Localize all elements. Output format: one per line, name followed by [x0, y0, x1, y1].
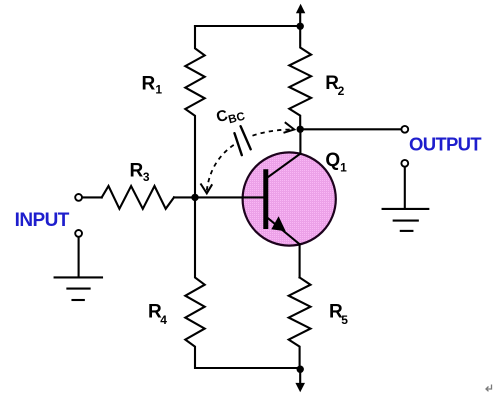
- svg-text:INPUT: INPUT: [15, 210, 70, 231]
- svg-text:4: 4: [160, 313, 167, 327]
- svg-text:1: 1: [340, 161, 347, 175]
- svg-text:R: R: [142, 73, 156, 94]
- svg-text:R: R: [130, 161, 144, 182]
- svg-text:3: 3: [143, 170, 150, 184]
- svg-text:Q: Q: [325, 150, 340, 171]
- svg-text:1: 1: [155, 83, 162, 97]
- svg-text:2: 2: [338, 84, 345, 98]
- svg-text:OUTPUT: OUTPUT: [409, 134, 482, 155]
- svg-text:5: 5: [341, 313, 348, 327]
